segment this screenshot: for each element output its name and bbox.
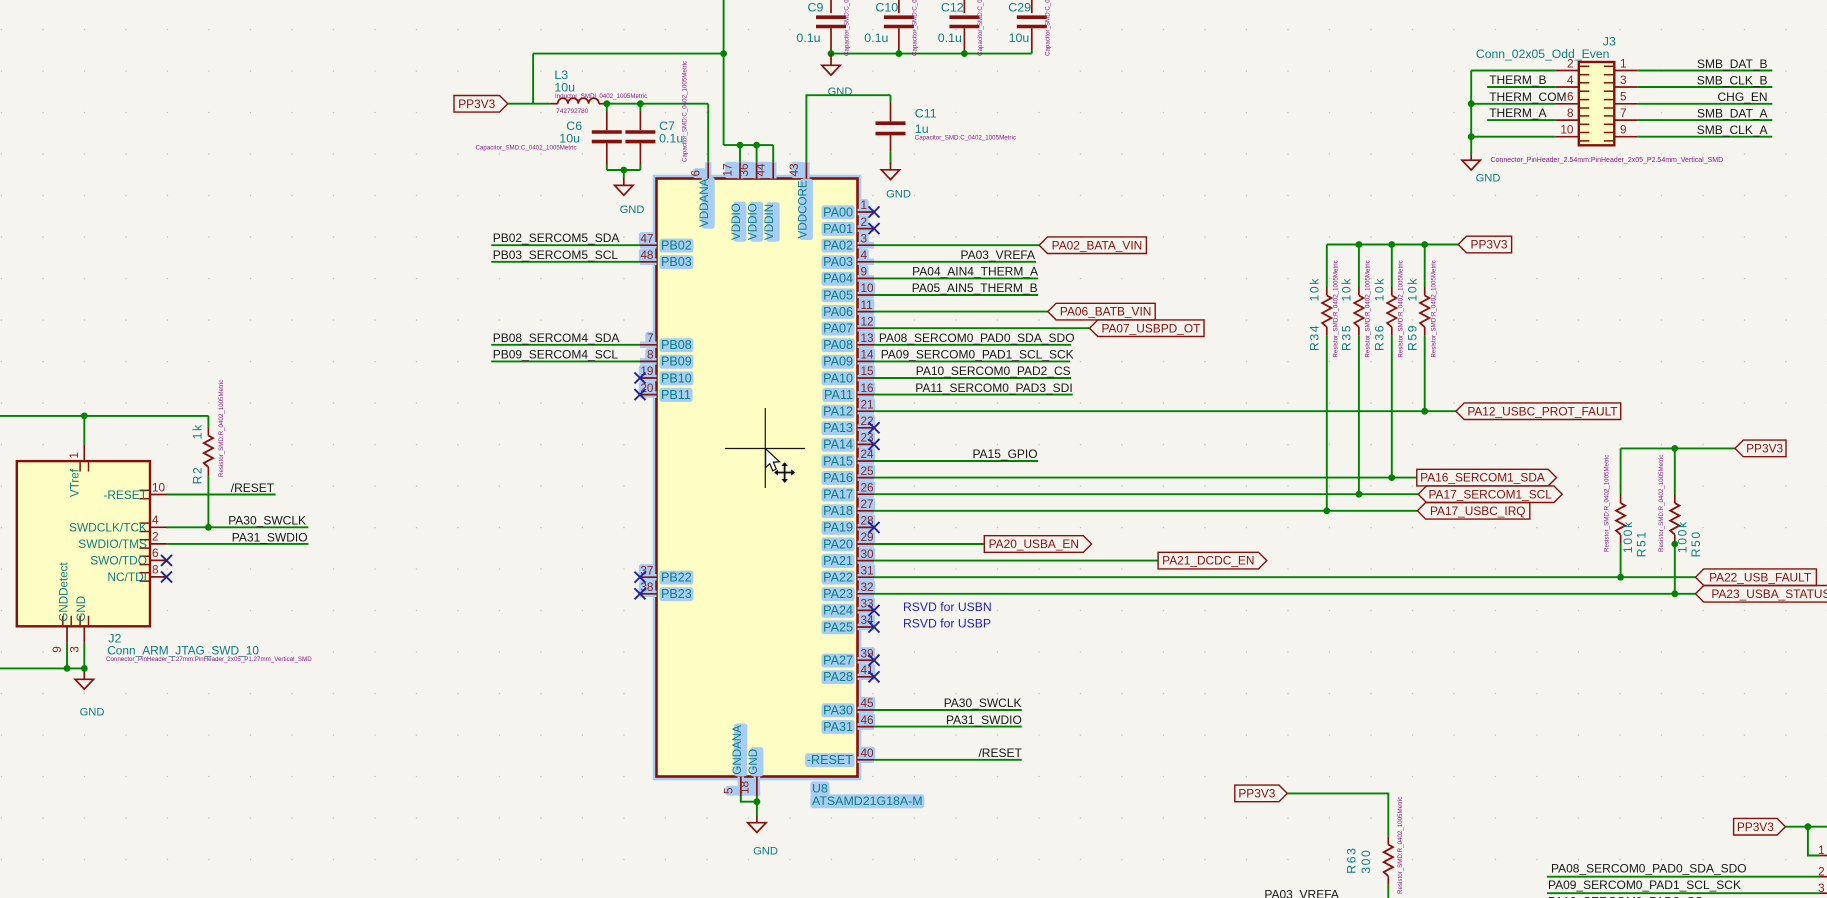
U8 pin 22 (PA13) stub — [858, 427, 875, 429]
svg-text:PA21_DCDC_EN: PA21_DCDC_EN — [1162, 554, 1254, 568]
wire U8 pin18 GND down — [756, 796, 758, 817]
junction R59 — [1421, 408, 1428, 415]
svg-text:4: 4 — [152, 513, 159, 527]
capacitor C7 — [625, 132, 655, 142]
U8 pin 7 (PB08) stub — [640, 344, 657, 346]
U8 pin 48 (PB03) stub — [640, 261, 657, 263]
wire SMB_DAT_A (J3 pin 7) — [1638, 119, 1773, 121]
svg-text:PA21: PA21 — [823, 554, 853, 568]
wire PB09_SERCOM4_SCL — [491, 360, 640, 362]
svg-text:PA07_USBPD_OT: PA07_USBPD_OT — [1101, 321, 1200, 335]
resistor R34 bottom lead — [1326, 327, 1328, 336]
pin number 6 (U8) — [689, 170, 703, 177]
svg-text:PP3V3: PP3V3 — [458, 97, 495, 111]
wire PA21_DCDC_EN — [874, 560, 1158, 562]
value R34 = 10k — [1308, 277, 1322, 301]
svg-text:VDDIO: VDDIO — [730, 203, 743, 240]
footprint field C9 — [844, 0, 851, 56]
svg-text:PB22: PB22 — [661, 571, 692, 585]
svg-text:PA20_USBA_EN: PA20_USBA_EN — [989, 537, 1079, 551]
no-connect U8 pin 23 — [869, 439, 880, 450]
U8 pin 44 (VDDIN) stub — [772, 162, 774, 178]
pin name VDDIO (U8) — [747, 203, 760, 240]
wire C6 top — [606, 104, 608, 112]
U8 pin 11 (PA06) stub — [858, 311, 875, 313]
U8 pin 4 (PA03) stub — [858, 261, 875, 263]
connector J2 pin 2 socket — [140, 540, 150, 548]
editor crosshair cursor — [725, 408, 805, 488]
global label PA22_USB_FAULT — [1696, 569, 1817, 586]
svg-text:R63: R63 — [1345, 847, 1359, 874]
svg-text:GND: GND — [80, 707, 105, 719]
svg-text:6: 6 — [1567, 90, 1574, 104]
connector J3 pin 4 stub — [1555, 86, 1579, 88]
ic U8 body — [657, 179, 858, 777]
connector J3 pin 4 socket — [1580, 83, 1590, 91]
svg-text:Resistor_SMD:R_0402_1005Metric: Resistor_SMD:R_0402_1005Metric — [1604, 455, 1611, 552]
svg-text:10k: 10k — [1340, 277, 1354, 301]
power symbol GND (J3) — [1462, 154, 1480, 170]
svg-text:VDDCORE: VDDCORE — [796, 180, 809, 238]
svg-text:29: 29 — [861, 530, 874, 544]
connector J3 pin 6 socket — [1580, 100, 1590, 108]
resistor R34 top lead — [1326, 287, 1328, 296]
reference R50 — [1689, 530, 1703, 557]
svg-text:PA17_SERCOM1_SCL: PA17_SERCOM1_SCL — [1429, 487, 1553, 501]
junction R35 — [1356, 491, 1363, 498]
svg-text:PA06_BATB_VIN: PA06_BATB_VIN — [1060, 305, 1151, 319]
svg-text:PA10_SERCOM0_PAD2_CS: PA10_SERCOM0_PAD2_CS — [916, 364, 1071, 378]
pin number 9 (J2) — [50, 646, 64, 653]
junction R2/PA30_SWCLK — [205, 524, 212, 531]
wire SMB_CLK_A (J3 pin 9) — [1638, 136, 1773, 138]
wire PA15_GPIO — [874, 460, 1038, 462]
svg-text:12: 12 — [861, 314, 874, 328]
svg-text:PA17: PA17 — [823, 488, 853, 502]
wire J2 pin3 to GND rail — [83, 643, 85, 669]
global label PA07_USBPD_OT — [1090, 320, 1205, 337]
wire C11 bottom — [890, 152, 892, 164]
svg-text:1: 1 — [1818, 843, 1825, 857]
svg-text:PB23: PB23 — [661, 587, 692, 601]
wire PA18 / PA17_USBC_IRQ — [874, 510, 1417, 512]
svg-text:PA23: PA23 — [823, 587, 853, 601]
wire R2 top — [207, 416, 209, 428]
U8 pin 46 (PA31) stub — [858, 726, 875, 728]
resistor R2 top lead — [207, 428, 209, 436]
reference R63 — [1345, 847, 1359, 874]
global label PA17_USBC_IRQ — [1417, 503, 1529, 520]
svg-text:PA00: PA00 — [823, 205, 853, 219]
pin name GND (U8) — [747, 749, 760, 775]
U8 pin 5 (GNDANA) stub — [740, 777, 742, 797]
svg-text:18: 18 — [737, 780, 751, 794]
U8 pin 37 (PB22) stub — [640, 576, 657, 578]
svg-text:3: 3 — [1620, 73, 1627, 87]
global label PA20_USBA_EN — [984, 536, 1091, 553]
capacitor C10 top lead — [898, 0, 900, 13]
junction R50 — [1671, 590, 1678, 597]
svg-text:PP3V3: PP3V3 — [1471, 238, 1508, 252]
capacitor C7 bottom lead — [639, 143, 641, 164]
svg-text:VDDIO: VDDIO — [747, 203, 760, 240]
power symbol GND (decoupling rail) — [822, 54, 840, 76]
pin number 1 (J2) — [67, 452, 81, 459]
svg-text:/RESET: /RESET — [231, 481, 275, 495]
wire PP3V3 label to junction — [508, 103, 533, 105]
capacitor C9 — [816, 17, 846, 26]
junction PP3V3 feed/rail — [720, 50, 727, 57]
no-connect U8 pin 22 — [869, 422, 880, 433]
capacitor C10 — [884, 17, 914, 26]
footprint field C29 — [1044, 0, 1051, 56]
wire VDDIO/VDDIN rail — [724, 144, 774, 146]
no-connect J2 pin 6 — [161, 555, 172, 566]
resistor R50 — [1670, 503, 1679, 534]
inductor L3 — [558, 98, 599, 104]
U8 pin 19 (PB10) stub — [640, 377, 657, 379]
value R36 = 10k — [1373, 277, 1387, 301]
svg-text:RSVD for USBP: RSVD for USBP — [903, 616, 991, 630]
capacitor C11 top lead — [890, 103, 892, 122]
wire R63 bottom to sheet edge — [1387, 885, 1389, 898]
footprint field R59 — [1431, 260, 1438, 357]
svg-text:10u: 10u — [1009, 31, 1030, 45]
svg-text:PA09: PA09 — [823, 355, 853, 369]
wire PP3V3 to corner junction — [1785, 826, 1827, 828]
value R59 = 10k — [1406, 277, 1420, 301]
resistor R59 — [1420, 296, 1429, 328]
svg-text:PA08_SERCOM0_PAD0_SDA_SDO: PA08_SERCOM0_PAD0_SDA_SDO — [879, 331, 1075, 345]
svg-text:PB02: PB02 — [661, 239, 692, 253]
resistor R63 bottom lead — [1387, 876, 1389, 885]
resistor R36 bottom lead — [1391, 327, 1393, 336]
resistor R35 bottom lead — [1358, 327, 1360, 336]
svg-text:PA02: PA02 — [823, 239, 853, 253]
U8 pin 8 (PB09) stub — [640, 360, 657, 362]
capacitor C12 bottom lead — [963, 28, 965, 50]
U8 pin 30 (PA21) stub — [858, 560, 875, 562]
svg-text:6: 6 — [152, 546, 159, 560]
wire PP3V3 down to VDDIO rail — [723, 54, 725, 146]
junction R50 mid lead — [1671, 541, 1678, 548]
connector J2 pin 3 socket — [80, 616, 88, 626]
resistor R34 — [1322, 296, 1331, 328]
pin name VDDIO (U8) — [730, 203, 743, 240]
connector J3 pin 5 socket — [1604, 100, 1614, 108]
wire PA31_SWDIO (J2 pin2) — [167, 543, 309, 545]
svg-text:21: 21 — [861, 397, 874, 411]
no-connect U8 pin 39 — [869, 655, 880, 666]
capacitor C6 bottom lead — [606, 143, 608, 164]
svg-text:GND: GND — [620, 204, 645, 216]
svg-text:0.1u: 0.1u — [659, 132, 683, 146]
U8 pin 10 (PA05) stub — [858, 294, 875, 296]
svg-text:PA08_SERCOM0_PAD0_SDA_SDO: PA08_SERCOM0_PAD0_SDA_SDO — [1551, 862, 1747, 876]
pin number 44 (U8) — [754, 163, 768, 177]
svg-text:PA08: PA08 — [823, 338, 853, 352]
svg-text:46: 46 — [861, 713, 875, 727]
svg-text:GND: GND — [1476, 173, 1501, 185]
wire J3 pin2 to GND vertical — [1470, 71, 1472, 155]
svg-text:PA04_AIN4_THERM_A: PA04_AIN4_THERM_A — [912, 265, 1038, 279]
svg-text:PA30_SWCLK: PA30_SWCLK — [228, 514, 306, 528]
wire J3 pin2 — [1471, 70, 1555, 72]
svg-text:14: 14 — [861, 348, 875, 362]
reference R2 — [191, 466, 205, 485]
wire PA30_SWCLK (J2 pin4) — [167, 526, 309, 528]
svg-text:PA31_SWDIO: PA31_SWDIO — [946, 713, 1022, 727]
svg-text:PA15_GPIO: PA15_GPIO — [972, 447, 1037, 461]
svg-text:13: 13 — [861, 331, 875, 345]
connector J2 pin 1 socket — [80, 462, 88, 472]
svg-text:R36: R36 — [1373, 324, 1387, 351]
capacitor C11 — [876, 123, 906, 133]
svg-text:PA28: PA28 — [823, 670, 853, 684]
global label PA02_BATA_VIN — [1039, 237, 1146, 254]
U8 pin 45 (PA30) stub — [858, 709, 875, 711]
svg-text:PA12: PA12 — [823, 405, 853, 419]
wire PA02_BATA_VIN — [874, 244, 1039, 246]
svg-text:NC/TDI: NC/TDI — [107, 570, 147, 584]
svg-text:0.1u: 0.1u — [796, 31, 820, 45]
svg-text:10u: 10u — [559, 132, 580, 146]
capacitor C12 — [949, 17, 979, 26]
wire GND stub — [623, 170, 625, 178]
svg-text:17: 17 — [721, 163, 735, 176]
resistor R51 — [1616, 503, 1625, 534]
svg-text:PB10: PB10 — [661, 371, 692, 385]
wire /RESET (J2 pin10) — [167, 494, 276, 496]
junction VDDIO rail/pin17 — [737, 142, 744, 149]
U8 pin 23 (PA14) stub — [858, 443, 875, 445]
global label PA23_USBA_STATUS — [1696, 586, 1827, 603]
svg-text:THERM_COM: THERM_COM — [1489, 90, 1566, 104]
svg-text:PB03: PB03 — [661, 255, 692, 269]
svg-text:R59: R59 — [1406, 324, 1420, 351]
svg-text:R51: R51 — [1635, 530, 1649, 557]
svg-text:6: 6 — [689, 170, 703, 177]
resistor R2 — [204, 436, 213, 468]
U8 pin 12 (PA07) stub — [858, 327, 875, 329]
svg-text:PA20: PA20 — [823, 537, 853, 551]
svg-text:9: 9 — [861, 265, 868, 279]
svg-text:Connector_PinHeader_2.54mm:Pin: Connector_PinHeader_2.54mm:PinHeader_2x0… — [1491, 157, 1724, 164]
U8 pin 43 (VDDCORE) stub — [805, 162, 807, 178]
wire R50 bottom — [1674, 544, 1676, 594]
connector J2 pin 10 stub — [150, 494, 167, 496]
svg-text:Capacitor_SMD:C_0402_1005Metri: Capacitor_SMD:C_0402_1005Metric — [977, 0, 984, 56]
U8 pin 47 (PB02) stub — [640, 244, 657, 246]
wire R59 top — [1424, 245, 1426, 288]
svg-text:PA07: PA07 — [823, 322, 853, 336]
footprint field R34 — [1333, 260, 1340, 357]
wire PA09_SERCOM0_PAD1_SCL_SCK — [874, 360, 1070, 362]
wire J2 pin1 drop — [83, 416, 85, 445]
pin name VDDANA (U8) — [698, 178, 711, 227]
svg-text:SMB_DAT_A: SMB_DAT_A — [1697, 107, 1767, 121]
wire drop to U8 pin 6 VDDANA — [707, 104, 709, 163]
connector J3 pin 9 socket — [1604, 133, 1614, 141]
connector J2 pin 6 socket — [140, 556, 150, 564]
wire PA12_USBC_PROT_FAULT — [874, 410, 1456, 412]
wire SMB_CLK_B (J3 pin 3) — [1638, 86, 1773, 88]
wire PA11_SERCOM0_PAD3_SDI — [874, 394, 1073, 396]
svg-text:8: 8 — [1567, 106, 1574, 120]
svg-text:R34: R34 — [1308, 324, 1322, 351]
U8 highlight glow (pins and text) — [639, 162, 925, 808]
footprint field R36 — [1398, 260, 1405, 357]
wire PA09_SERCOM0_PAD1_SCL_SCK (bottom) — [1547, 892, 1820, 894]
pin 1 stub (bottom right device) — [1820, 855, 1827, 857]
wire J3 pin10 — [1471, 136, 1555, 138]
pin number 36 (U8) — [737, 163, 751, 177]
U8 pin 18 (GND) stub — [756, 777, 758, 797]
junction C6 top — [603, 100, 610, 107]
global label PP3V3 (R50/R51) — [1735, 440, 1786, 457]
svg-text:Resistor_SMD:R_0402_1005Metric: Resistor_SMD:R_0402_1005Metric — [218, 380, 225, 477]
svg-text:PA23_USBA_STATUS: PA23_USBA_STATUS — [1711, 587, 1827, 601]
svg-text:16: 16 — [861, 381, 875, 395]
wire R34 bottom — [1326, 336, 1328, 511]
junction C7 top — [637, 100, 644, 107]
pin name VTref (J2) — [69, 468, 82, 497]
wire C6/C7 GND rail — [607, 169, 641, 171]
no-connect U8 pin 33 — [869, 605, 880, 616]
svg-text:PA22: PA22 — [823, 571, 853, 585]
svg-text:43: 43 — [787, 163, 801, 177]
wire R2 bottom to PA30_SWCLK — [207, 476, 209, 527]
svg-text:C29: C29 — [1008, 1, 1031, 15]
svg-text:GNDDetect: GNDDetect — [58, 562, 71, 622]
wire U8 pin5 GNDANA to GND — [741, 796, 757, 802]
capacitor C29 top lead — [1031, 0, 1033, 13]
svg-text:Resistor_SMD:R_0402_1005Metric: Resistor_SMD:R_0402_1005Metric — [1658, 455, 1665, 552]
wire PA04_AIN4_THERM_A — [874, 277, 1038, 279]
wire SMB_DAT_B (J3 pin 1) — [1638, 70, 1773, 72]
resistor R63 — [1384, 845, 1393, 877]
wire /RESET (U8) — [874, 759, 1022, 761]
power symbol GND (C6/C7) — [615, 178, 633, 195]
svg-text:48: 48 — [640, 248, 654, 262]
svg-text:2: 2 — [1818, 864, 1825, 878]
svg-text:10k: 10k — [1373, 277, 1387, 301]
junction GNDANA/GND — [754, 798, 761, 805]
junction C6/C7 GND — [620, 167, 627, 174]
wire R59 bottom — [1424, 336, 1426, 412]
pin name GNDANA (U8) — [731, 725, 744, 775]
wire PB08_SERCOM4_SDA — [491, 344, 640, 346]
pin name VDDIN (U8) — [763, 204, 776, 240]
U8 pin 16 (PA11) stub — [858, 394, 875, 396]
wire PP3V3 to R63 — [1287, 793, 1388, 836]
junction C12/GND rail — [961, 50, 968, 57]
value R51 = 100k — [1621, 520, 1635, 553]
no-connect U8 pin 20 — [635, 389, 646, 400]
global label PA12_USBC_PROT_FAULT — [1456, 403, 1621, 420]
mouse arrow cursor — [766, 449, 780, 471]
capacitor C29 — [1017, 17, 1047, 26]
junction J3 GND/pin6 — [1468, 100, 1475, 107]
wire PA20_USBA_EN — [874, 543, 984, 545]
reference R59 — [1406, 324, 1420, 351]
svg-text:7: 7 — [1620, 106, 1627, 120]
svg-text:THERM_B: THERM_B — [1489, 73, 1546, 87]
svg-text:5: 5 — [721, 787, 735, 794]
wire R36 bottom — [1391, 336, 1393, 478]
no-connect U8 pin 37 — [635, 572, 646, 583]
pin number 3 (J2) — [67, 646, 81, 653]
svg-text:Capacitor_SMD:C_0402_1005Metri: Capacitor_SMD:C_0402_1005Metric — [1044, 0, 1051, 56]
svg-text:31: 31 — [861, 563, 874, 577]
svg-text:PA15: PA15 — [823, 454, 853, 468]
svg-text:PA19: PA19 — [823, 521, 853, 535]
connector J2 pin 8 stub — [150, 576, 167, 578]
svg-text:PB02_SERCOM5_SDA: PB02_SERCOM5_SDA — [493, 231, 620, 245]
junction PP3V3 rail/R36 — [1388, 241, 1395, 248]
wire J2 pin9 to GND rail — [66, 643, 68, 669]
svg-text:GND: GND — [753, 846, 778, 858]
wire drop to U8 pin 36 VDDIO — [756, 145, 758, 162]
footprint field R63 — [1397, 797, 1404, 894]
svg-text:PA03_VREFA: PA03_VREFA — [961, 248, 1035, 262]
value R50 = 100k — [1675, 520, 1689, 553]
U8 pin 25 (PA16) stub — [858, 477, 875, 479]
global label PP3V3 (R63) — [1235, 785, 1288, 802]
svg-text:Capacitor_SMD:C_0402_1005Metri: Capacitor_SMD:C_0402_1005Metric — [844, 0, 851, 56]
power symbol GND (U8) — [748, 817, 766, 833]
connector J3 pin 1 socket — [1604, 66, 1614, 74]
svg-text:PA10: PA10 — [823, 371, 853, 385]
junction PP3V3 rail/R35 — [1356, 241, 1363, 248]
svg-text:100k: 100k — [1675, 520, 1689, 553]
global label PA06_BATB_VIN — [1048, 303, 1155, 320]
svg-text:Resistor_SMD:R_0402_1005Metric: Resistor_SMD:R_0402_1005Metric — [1398, 260, 1405, 357]
no-connect U8 pin 1 — [869, 207, 880, 218]
svg-text:2: 2 — [861, 215, 868, 229]
wire C29 to GND rail — [1031, 50, 1033, 54]
resistor R50 top lead — [1674, 495, 1676, 504]
svg-text:4: 4 — [1567, 73, 1574, 87]
resistor R2 bottom lead — [207, 467, 209, 476]
wire GND rail from sheet edge — [0, 667, 84, 669]
connector J3 pin 2 socket — [1580, 66, 1590, 74]
power symbol GND (J2) — [75, 672, 93, 690]
wire U8 pin43 VDDCORE to C11 — [806, 95, 890, 162]
wire PA08_SERCOM0_PAD0_SDA_SDO — [874, 344, 1071, 346]
svg-text:R50: R50 — [1689, 530, 1703, 557]
connector J2 pin 1 stub — [83, 445, 85, 462]
svg-text:0.1u: 0.1u — [864, 31, 888, 45]
pin 3 stub (bottom right device) — [1820, 892, 1827, 894]
junction PP3V3 rail/R59 — [1421, 241, 1428, 248]
svg-text:PA11_SERCOM0_PAD3_SDI: PA11_SERCOM0_PAD3_SDI — [915, 381, 1072, 395]
footprint field R2 — [218, 380, 225, 477]
pin name GND (J2) — [75, 596, 88, 622]
pin number 43 (U8) — [787, 163, 801, 177]
svg-text:1: 1 — [861, 198, 868, 212]
capacitor C10 bottom lead — [898, 28, 900, 50]
connector J2 pin 9 stub — [66, 626, 68, 643]
junction R36 — [1388, 474, 1395, 481]
wire R35 top — [1358, 245, 1360, 288]
svg-text:Capacitor_SMD:C_0402_1005Metri: Capacitor_SMD:C_0402_1005Metric — [682, 61, 689, 162]
connector J2 pin 8 socket — [140, 573, 150, 581]
resistor R51 top lead — [1620, 495, 1622, 504]
wire PA23_USBA_STATUS — [874, 593, 1696, 595]
junction VTref/J2 pin1 — [81, 413, 88, 420]
svg-text:GND: GND — [75, 596, 88, 622]
